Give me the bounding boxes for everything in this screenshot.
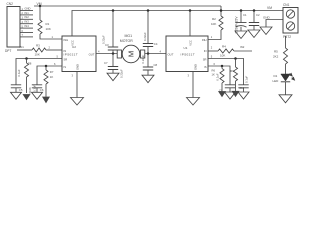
ground U1 GND	[187, 98, 200, 106]
junction R1/VM	[39, 5, 42, 8]
motor M glyph	[126, 51, 135, 57]
resistor R6	[220, 69, 224, 84]
svg-text:IN2: IN2	[240, 45, 245, 49]
wire IS U1 right run	[208, 66, 230, 85]
wire SR U1 right run	[208, 59, 244, 85]
capacitor C1 polarized	[236, 23, 247, 28]
ground C7	[107, 73, 119, 81]
motor brush left	[117, 50, 121, 58]
ground R6	[219, 92, 226, 97]
svg-text:IN3: IN3	[25, 20, 30, 24]
junction R7/IS	[45, 65, 48, 68]
svg-text:OUT: OUT	[168, 53, 174, 57]
value label 0.22uF of C7 vertical	[119, 69, 123, 78]
junction C1/VM	[240, 9, 243, 12]
svg-text:D1: D1	[274, 74, 278, 78]
motor MOTOR label	[120, 39, 133, 43]
value label 0.1uF of C9 vertical	[216, 73, 220, 80]
node VM label at CN1	[267, 6, 272, 10]
wire U1 IN to R4	[208, 50, 218, 52]
svg-text:INH: INH	[202, 38, 207, 42]
wire CN2 pin 7	[20, 36, 33, 38]
svg-text:IN2: IN2	[25, 15, 30, 19]
wire CN2 pin 5	[20, 27, 33, 29]
junction C2/VM	[253, 9, 256, 12]
svg-text:IN1: IN1	[20, 45, 25, 49]
pin label GND U2 vertical	[75, 64, 79, 70]
svg-text:0.1uF: 0.1uF	[32, 85, 36, 92]
connector CN1 screw 2	[286, 22, 294, 30]
svg-text:0.22uF: 0.22uF	[143, 32, 147, 41]
svg-text:1: 1	[52, 35, 54, 39]
svg-text:6: 6	[54, 62, 56, 66]
ground C2	[248, 30, 260, 38]
node GND label at CN2	[25, 6, 31, 10]
value label C8	[154, 63, 158, 67]
wire motor node to C7	[112, 54, 114, 67]
ground LED D1	[279, 95, 292, 103]
ground C10	[238, 92, 249, 99]
svg-text:INH: INH	[64, 38, 69, 42]
motor MG1 body	[122, 45, 140, 63]
node IN1 label at CN2	[25, 11, 30, 15]
wire SR U2 left run	[16, 59, 62, 85]
wire CN2 pin 2	[20, 14, 33, 16]
wire U2 OUT to motor	[96, 53, 117, 55]
node IN2 label at R4	[240, 45, 245, 49]
capacitor C10	[238, 85, 248, 88]
wire IS to R7	[45, 66, 47, 70]
value label 10K of R2	[211, 22, 216, 26]
svg-text:VM: VM	[267, 6, 272, 10]
value label 1K of R6	[212, 73, 215, 77]
wire R6 to ground	[221, 83, 223, 92]
svg-text:VCC: VCC	[71, 40, 75, 46]
connector CN1 screw 1	[286, 10, 294, 18]
ground R8	[23, 95, 30, 100]
IC U1 part name IPS021T	[181, 53, 196, 57]
wire C1 to ground	[240, 27, 242, 31]
resistor R2	[219, 16, 223, 30]
svg-text:M: M	[126, 51, 135, 57]
svg-text:5: 5	[57, 54, 59, 58]
wire C6 to ground	[36, 88, 38, 93]
value label R3	[36, 44, 40, 48]
wire VM to C2	[253, 11, 255, 23]
svg-text:IN: IN	[204, 49, 207, 53]
svg-text:U1: U1	[184, 46, 188, 50]
resistor R8	[24, 63, 28, 77]
value label C10	[239, 86, 244, 90]
svg-text:GND: GND	[193, 64, 197, 70]
svg-text:IPS021T: IPS021T	[64, 53, 79, 57]
svg-text:R1: R1	[46, 22, 50, 26]
svg-text:IN: IN	[64, 49, 67, 53]
value label R9	[230, 69, 234, 73]
value label 0.22uF of C3 vertical	[102, 35, 106, 44]
wire CN2 pin 1	[20, 10, 33, 12]
node IN3 label at CN2	[25, 20, 30, 24]
connector CN2 part label DPT	[5, 49, 11, 53]
value label 0.1uF of C10 vertical	[244, 76, 248, 83]
wire C10 to ground	[243, 88, 245, 92]
wire CN1 to R5	[285, 36, 287, 48]
value label 0.22uF of C8 vertical	[141, 55, 145, 64]
capacitor C3	[108, 47, 118, 50]
wire VM to C4	[147, 11, 149, 44]
pin number 6 IS U1	[214, 62, 216, 66]
node IN1 label at R3	[20, 45, 25, 49]
pin label VCC U2 vertical	[71, 40, 75, 46]
resistor R3	[32, 48, 46, 52]
node VM label	[37, 2, 42, 6]
svg-text:C8: C8	[154, 63, 158, 67]
connector CN2 body	[7, 7, 20, 48]
ground R7	[43, 97, 50, 103]
ground C6	[32, 92, 43, 99]
svg-text:R5: R5	[274, 49, 278, 53]
junction R2/VM	[220, 9, 223, 12]
value label 16V of C5 vertical	[17, 69, 21, 76]
connector CN2 name label	[7, 2, 14, 6]
svg-text:SR: SR	[64, 57, 68, 61]
svg-text:C3: C3	[105, 43, 109, 47]
value label 10K of R3	[35, 52, 40, 56]
pin label VCC U1 vertical	[189, 40, 193, 46]
pin number 4 OUT U2	[98, 49, 100, 53]
wire IS U2 left run	[37, 66, 62, 85]
svg-text:GND: GND	[25, 6, 31, 10]
svg-text:1K: 1K	[50, 75, 54, 79]
wire C5 to ground	[15, 88, 17, 93]
wire R5 to LED	[285, 64, 287, 74]
pin label IS U2	[64, 65, 67, 69]
svg-text:GND: GND	[263, 16, 271, 20]
node IN4 label at CN2	[25, 24, 30, 28]
value label 10K of R4	[220, 53, 225, 57]
ground U2 GND	[71, 98, 84, 106]
svg-text:C5: C5	[19, 88, 23, 92]
svg-text:PBT2: PBT2	[283, 35, 291, 39]
wire SR to R8	[26, 59, 28, 64]
wire CN2 pin 3	[20, 18, 33, 20]
svg-text:OUT: OUT	[89, 53, 95, 57]
svg-text:GND: GND	[75, 64, 79, 70]
junction C3 column/VM	[112, 9, 115, 12]
value label C9	[219, 89, 223, 93]
wire VM to R1	[39, 6, 41, 20]
wire VM to C3	[112, 11, 114, 48]
value label C1	[243, 13, 247, 17]
wire IS to R6	[221, 66, 223, 69]
svg-text:2: 2	[211, 45, 213, 49]
resistor R5	[283, 48, 287, 64]
svg-text:10K: 10K	[35, 52, 40, 56]
wire motor right to U1 OUT	[145, 53, 166, 55]
wire U1 GND pin down	[192, 72, 194, 98]
wire R9 to ground	[235, 81, 237, 91]
wire SR to R9	[235, 59, 237, 68]
svg-text:MG1: MG1	[125, 34, 133, 38]
svg-text:R8: R8	[28, 62, 32, 66]
wire U2 GND pin down	[76, 72, 78, 98]
pin label IN U1	[204, 49, 207, 53]
wire C3 to motor node	[112, 50, 114, 54]
value label 220uF/35V of C1 vertical	[234, 16, 238, 34]
IC U1 body	[166, 36, 208, 72]
value label R1	[46, 22, 50, 26]
motor MG1 label	[125, 34, 133, 38]
svg-text:0.1uF: 0.1uF	[216, 73, 220, 80]
junction R6/IS	[221, 65, 224, 68]
svg-text:0.22uF: 0.22uF	[141, 55, 145, 64]
node IN2 label at CN2	[25, 15, 30, 19]
wire R3 to IN U2	[46, 49, 62, 51]
svg-text:SR: SR	[203, 57, 207, 61]
wire VM to C1	[240, 11, 242, 23]
wire VM second rail to CN1	[72, 11, 283, 37]
svg-text:LED: LED	[273, 79, 280, 83]
pin number 1 CN2	[22, 8, 24, 11]
pin number 5 SR U1	[211, 54, 213, 58]
svg-text:6: 6	[214, 62, 216, 66]
junction R9/SR	[234, 57, 237, 60]
pin number 5 CN2	[22, 25, 24, 28]
svg-text:2: 2	[49, 45, 51, 49]
pin number 1 INH U1	[211, 35, 213, 39]
value label R2	[212, 17, 216, 21]
svg-text:R7: R7	[50, 70, 54, 74]
ground R9	[232, 91, 239, 96]
svg-text:10K: 10K	[220, 53, 225, 57]
svg-text:4: 4	[98, 49, 100, 53]
svg-text:IS: IS	[204, 65, 207, 69]
pin number 4 OUT U1	[160, 49, 162, 53]
pin number 2 IN U2	[49, 45, 51, 49]
pin label SR U2	[64, 57, 68, 61]
IC U1 refdes	[184, 46, 188, 50]
svg-text:R6: R6	[212, 68, 216, 72]
junction C3-C7 node motor left	[112, 52, 115, 55]
pin label OUT U1	[168, 53, 174, 57]
svg-text:C2: C2	[256, 13, 260, 17]
value label R6	[212, 68, 216, 72]
pin label INH U2	[64, 38, 69, 42]
svg-text:0.22uF: 0.22uF	[119, 69, 123, 78]
junction R8/SR	[25, 57, 28, 60]
value label 51K of R8 vertical	[28, 87, 32, 93]
svg-text:C1: C1	[243, 13, 247, 17]
svg-text:VCC: VCC	[189, 40, 193, 46]
value label C3	[105, 43, 109, 47]
IC U2 body	[62, 36, 96, 72]
pin label IS U1	[204, 65, 207, 69]
value label D1	[274, 74, 278, 78]
LED D1	[281, 73, 295, 82]
wire C4 to motor node	[147, 47, 149, 54]
value label R5	[274, 49, 278, 53]
value label LED of D1	[273, 79, 280, 83]
svg-text:IPS021T: IPS021T	[181, 53, 196, 57]
resistor R9	[233, 67, 237, 81]
junction C4 column/VM	[147, 9, 150, 12]
wire motor node to C8	[147, 54, 149, 68]
pin number 5 SR U2	[57, 54, 59, 58]
value label 2K2 of R5	[273, 54, 279, 58]
value label C2	[256, 13, 260, 17]
connector CN1 part label PBT2	[283, 35, 291, 39]
pin label IN U2	[64, 49, 67, 53]
svg-text:0.1uF: 0.1uF	[244, 76, 248, 83]
node GND label at CN1	[263, 16, 271, 20]
pin number 3 GND U2	[72, 74, 74, 78]
pin number 4 CN2	[22, 21, 24, 24]
pin number 6 IS U2	[54, 62, 56, 66]
svg-text:3: 3	[72, 74, 74, 78]
wire GND CN1 to ground	[266, 20, 283, 28]
ground C9	[225, 92, 236, 99]
pin number 3 GND U1	[188, 74, 190, 78]
value label R8	[28, 62, 32, 66]
svg-text:10K: 10K	[46, 27, 51, 31]
wire CN2 pin 6	[20, 32, 33, 34]
pin label INH U1	[202, 38, 207, 42]
wire R8 to ground	[26, 77, 28, 93]
svg-text:R2: R2	[212, 17, 216, 21]
resistor R1	[38, 20, 42, 34]
svg-text:C6: C6	[40, 88, 44, 92]
pin number 7 CN2	[22, 34, 24, 37]
svg-text:CN2: CN2	[7, 2, 14, 6]
svg-text:0.1uF: 0.1uF	[17, 69, 21, 76]
svg-text:10K: 10K	[211, 22, 216, 26]
pin number 6 CN2	[22, 30, 24, 33]
resistor R7	[44, 70, 48, 84]
capacitor C6	[32, 85, 42, 88]
wire C7 to ground	[112, 70, 114, 74]
svg-text:R4: R4	[222, 45, 226, 49]
wire C9 to ground	[229, 88, 231, 92]
ground CN1 GND	[260, 27, 272, 35]
wire rail join at R2	[220, 6, 222, 16]
svg-text:IN1: IN1	[25, 11, 30, 15]
connector CN1 body	[283, 8, 298, 34]
resistor R4	[218, 49, 234, 53]
svg-text:C9: C9	[219, 89, 223, 93]
pin number 2 CN2	[22, 12, 24, 15]
svg-text:C7: C7	[104, 61, 108, 65]
wire R1 to INH U2	[40, 34, 62, 39]
value label C6	[40, 88, 44, 92]
wire VM top rail (from R1 pull-up run)	[34, 5, 221, 7]
pin number 3 CN2	[22, 17, 24, 20]
wire C8 to ground	[147, 70, 149, 75]
wire R7 to ground	[45, 84, 47, 97]
svg-text:IS: IS	[64, 65, 67, 69]
wire R2 to INH U1	[208, 30, 221, 40]
value label C7	[104, 61, 108, 65]
IC U2 part name IPS021T	[64, 53, 79, 57]
capacitor C5	[11, 85, 21, 88]
value label C4	[154, 42, 158, 46]
value label 1K of R7	[50, 75, 54, 79]
pin label OUT U2	[89, 53, 95, 57]
svg-text:1K: 1K	[212, 73, 215, 77]
ground C8	[142, 75, 154, 83]
IC U2 refdes	[72, 45, 76, 49]
value label 0.22uF of C4 vertical	[143, 32, 147, 41]
ground C1	[235, 31, 247, 39]
wire R4 to IN2	[234, 50, 252, 52]
value label R7	[50, 70, 54, 74]
svg-text:3: 3	[188, 74, 190, 78]
capacitor C7	[108, 67, 118, 70]
value label R4	[222, 45, 226, 49]
svg-text:DPT: DPT	[5, 49, 11, 53]
svg-text:IN4: IN4	[25, 24, 30, 28]
svg-text:CN1: CN1	[283, 3, 290, 7]
svg-text:4: 4	[160, 49, 162, 53]
value label 10K of R1	[46, 27, 51, 31]
svg-text:R3: R3	[36, 44, 40, 48]
capacitor C2	[249, 23, 259, 26]
wire LED to ground	[285, 82, 287, 95]
motor brush right	[141, 50, 145, 58]
pin label SR U1	[203, 57, 207, 61]
junction U1 VCC/VM	[189, 9, 192, 12]
svg-text:C4: C4	[154, 42, 158, 46]
capacitor C8	[143, 67, 153, 70]
capacitor C4	[143, 44, 153, 47]
wire U1 VCC to VM	[189, 11, 191, 37]
capacitor C9	[225, 85, 235, 88]
pin number 1 INH U2	[52, 35, 54, 39]
connector CN1 name label	[283, 3, 290, 7]
svg-text:R9: R9	[230, 69, 234, 73]
svg-text:2K2: 2K2	[273, 54, 279, 58]
svg-text:MOTOR: MOTOR	[120, 39, 133, 43]
wire IN1 to R3	[17, 49, 32, 51]
pin label GND U1 vertical	[193, 64, 197, 70]
value label 0.1uF of C6 vertical	[32, 85, 36, 92]
junction C4-C8 node motor right	[147, 52, 150, 55]
value label C5	[19, 88, 23, 92]
wire CN2 pin 4	[20, 23, 33, 25]
pin number 2 IN U1	[211, 45, 213, 49]
svg-text:1: 1	[211, 35, 213, 39]
ground C5	[11, 92, 22, 99]
wire C2 to ground	[253, 26, 255, 31]
svg-text:5: 5	[211, 54, 213, 58]
